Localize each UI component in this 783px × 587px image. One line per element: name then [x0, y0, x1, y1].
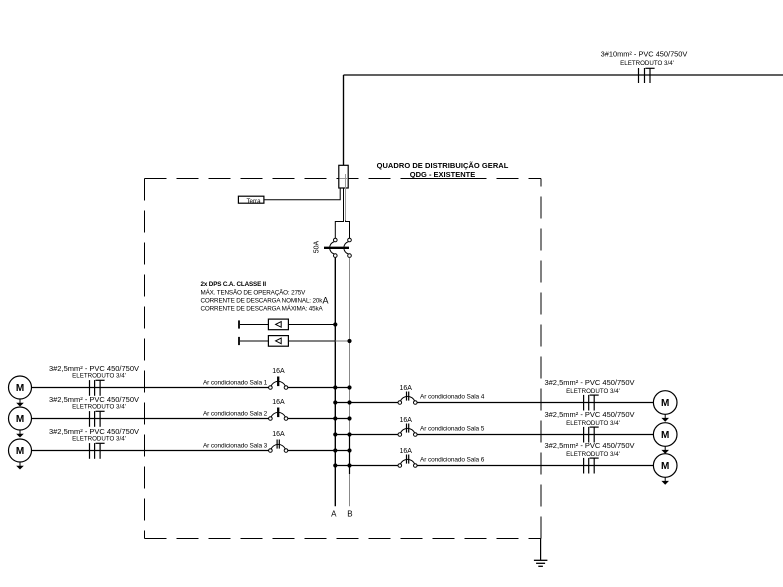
cable marker: 3 conductors branch Sala 5	[584, 427, 599, 443]
label: 3#2,5mm2 - PVC 450/750V (Sala 6)	[544, 441, 634, 450]
svg-text:16A: 16A	[399, 385, 412, 392]
svg-text:M: M	[16, 446, 24, 457]
svg-text:ELETRODUTO 3/4': ELETRODUTO 3/4'	[72, 404, 126, 411]
label: 16A (Sala 1)	[272, 368, 285, 375]
wire: branch Sala 6 breaker to motor	[417, 465, 654, 467]
fuse F1: main incoming fuse block	[339, 165, 348, 188]
svg-text:3#10mm² - PVC 450/750V: 3#10mm² - PVC 450/750V	[601, 50, 688, 59]
label: Ar condicionado Sala 6	[420, 457, 485, 464]
panel enclosure: dashed border QDG	[145, 179, 542, 539]
cable marker: 3 conductors branch Sala 1	[90, 380, 105, 396]
svg-text:3#2,5mm² - PVC 450/750V: 3#2,5mm² - PVC 450/750V	[544, 441, 634, 450]
label: 16A (Sala 2)	[272, 399, 285, 406]
label: DPS specification text block	[201, 281, 329, 312]
wire: branch Sala 2 motor to breaker	[32, 418, 270, 420]
svg-text:ELETRODUTO 3/4': ELETRODUTO 3/4'	[566, 420, 620, 427]
svg-text:16A: 16A	[272, 399, 285, 406]
label: Ar condicionado Sala 5	[420, 426, 485, 433]
label: 16A (Sala 4)	[399, 385, 412, 392]
junction dot: DPS2 to bus B	[347, 339, 351, 343]
svg-text:M: M	[16, 383, 24, 394]
label: 16A (Sala 5)	[399, 417, 412, 424]
svg-text:B: B	[347, 510, 352, 519]
cable marker: 3 conductors branch Sala 2	[90, 411, 105, 427]
label: bus node A	[331, 510, 337, 519]
junction dot: Sala 2 at bus B	[347, 416, 351, 420]
motor M6 (Sala 6)	[653, 454, 677, 485]
label: ELETRODUTO 3/4 (Sala 5)	[566, 420, 620, 427]
label: ELETRODUTO 3/4 (Sala 4)	[566, 388, 620, 395]
label: ELETRODUTO 3/4' (feeder)	[620, 60, 674, 67]
label: bus node B	[347, 510, 352, 519]
terminal block: Terra box	[238, 196, 264, 205]
wire: conductor pair from fuse to breaker	[335, 174, 349, 238]
wire: branch Sala 4 buses to breaker	[335, 402, 398, 404]
svg-text:3#2,5mm² - PVC 450/750V: 3#2,5mm² - PVC 450/750V	[544, 378, 634, 387]
wire: branch Sala 6 buses to breaker	[335, 465, 398, 467]
label: 3#2,5mm2 - PVC 450/750V (Sala 2)	[49, 395, 139, 404]
svg-text:CORRENTE DE DESCARGA MÁXIMA: 4: CORRENTE DE DESCARGA MÁXIMA: 45kA	[201, 303, 324, 312]
circuit breaker 16A Sala 5	[398, 424, 417, 437]
svg-text:MÁX. TENSÃO DE OPERAÇÃO: 275V: MÁX. TENSÃO DE OPERAÇÃO: 275V	[201, 287, 307, 296]
label: ELETRODUTO 3/4 (Sala 1)	[72, 373, 126, 380]
motor M5 (Sala 5)	[653, 423, 677, 454]
label: QDG - EXISTENTE	[410, 170, 475, 179]
svg-text:Terra: Terra	[246, 198, 261, 205]
wire: branch Sala 5 breaker to motor	[417, 434, 654, 436]
svg-text:QUADRO DE DISTRIBUIÇÃO GERAL: QUADRO DE DISTRIBUIÇÃO GERAL	[377, 161, 509, 170]
svg-text:ELETRODUTO 3/4': ELETRODUTO 3/4'	[566, 388, 620, 395]
svg-text:M: M	[661, 461, 669, 472]
svg-text:M: M	[16, 414, 24, 425]
junction dot: Sala 6 at bus B	[347, 463, 351, 467]
label: 3#2,5mm2 - PVC 450/750V (Sala 3)	[49, 427, 139, 436]
label: 3#2,5mm2 - PVC 450/750V (Sala 1)	[49, 364, 139, 373]
wire: ground stem from panel corner	[540, 539, 542, 561]
circuit breaker 16A Sala 6	[398, 455, 417, 468]
label: ELETRODUTO 3/4 (Sala 6)	[566, 451, 620, 458]
label: Ar condicionado Sala 2	[203, 410, 268, 417]
label: 16A (Sala 3)	[272, 431, 285, 438]
svg-text:M: M	[661, 430, 669, 441]
circuit breaker 16A Sala 1	[269, 377, 288, 390]
bus A vertical	[334, 258, 336, 507]
junction dot: Sala 4 at bus B	[347, 400, 351, 404]
label: Ar condicionado Sala 4	[420, 394, 485, 401]
wire: meter tap from fuse	[264, 189, 340, 200]
label: 50A	[314, 240, 321, 253]
motor M3 (Sala 3)	[9, 439, 32, 470]
surge arrester DPS1	[239, 319, 335, 330]
surge arrester DPS2	[239, 336, 350, 347]
junction dot: Sala 1 at bus B	[347, 385, 351, 389]
wire: feeder vertical drop to fuse	[343, 75, 345, 165]
svg-text:3#2,5mm² - PVC 450/750V: 3#2,5mm² - PVC 450/750V	[544, 410, 634, 419]
svg-text:Ar condicionado Sala 6: Ar condicionado Sala 6	[420, 457, 485, 464]
label: 3#2,5mm2 - PVC 450/750V (Sala 5)	[544, 410, 634, 419]
wire: branch Sala 3 breaker to buses	[288, 450, 350, 452]
wire: branch Sala 2 breaker to buses	[288, 418, 350, 420]
svg-text:16A: 16A	[399, 448, 412, 455]
label: 3#2,5mm2 - PVC 450/750V (Sala 4)	[544, 378, 634, 387]
svg-text:A: A	[323, 296, 329, 306]
cable marker: 3 conductors branch Sala 3	[90, 443, 105, 459]
svg-text:2x DPS C.A. CLASSE II: 2x DPS C.A. CLASSE II	[201, 281, 267, 288]
label: ELETRODUTO 3/4 (Sala 3)	[72, 436, 126, 443]
svg-text:A: A	[331, 510, 337, 519]
label: QUADRO DE DISTRIBUICAO GERAL	[377, 161, 509, 170]
svg-text:16A: 16A	[399, 417, 412, 424]
circuit breaker 16A Sala 4	[398, 392, 417, 405]
svg-text:16A: 16A	[272, 431, 285, 438]
cable marker: 3 conductors branch Sala 4	[584, 395, 599, 411]
ground symbol	[534, 560, 548, 566]
svg-text:Ar condicionado Sala 2: Ar condicionado Sala 2	[203, 410, 268, 417]
circuit breaker: main 50A two-pole	[324, 238, 351, 257]
label: ELETRODUTO 3/4 (Sala 2)	[72, 404, 126, 411]
svg-text:ELETRODUTO 3/4': ELETRODUTO 3/4'	[566, 451, 620, 458]
motor M2 (Sala 2)	[9, 407, 32, 438]
svg-text:ELETRODUTO 3/4': ELETRODUTO 3/4'	[72, 373, 126, 380]
circuit breaker 16A Sala 2	[269, 408, 288, 421]
motor M4 (Sala 4)	[653, 391, 677, 422]
svg-text:CORRENTE DE DESCARGA NOMINAL:: CORRENTE DE DESCARGA NOMINAL: 20k	[201, 297, 324, 304]
wire: branch Sala 3 motor to breaker	[32, 450, 270, 452]
svg-text:16A: 16A	[272, 368, 285, 375]
circuit breaker 16A Sala 3	[269, 440, 288, 453]
label: 16A (Sala 6)	[399, 448, 412, 455]
junction dot: DPS1 to bus A	[333, 322, 337, 326]
svg-text:50A: 50A	[314, 240, 321, 253]
wire: branch Sala 4 breaker to motor	[417, 402, 654, 404]
label: 3#10mm2 - PVC 450/750V	[601, 50, 688, 59]
junction dot: Sala 5 at bus B	[347, 432, 351, 436]
cable marker: 3#10mm feeder conductor ticks	[639, 68, 655, 83]
junction dot: Sala 3 at bus A	[333, 448, 337, 452]
svg-text:Ar condicionado Sala 5: Ar condicionado Sala 5	[420, 426, 485, 433]
svg-text:Ar condicionado Sala 3: Ar condicionado Sala 3	[203, 442, 268, 449]
label: Ar condicionado Sala 1	[203, 379, 268, 386]
svg-text:Ar condicionado Sala 4: Ar condicionado Sala 4	[420, 394, 485, 401]
wire: branch Sala 1 motor to breaker	[32, 387, 270, 389]
svg-text:ELETRODUTO 3/4': ELETRODUTO 3/4'	[620, 60, 674, 67]
svg-text:Ar condicionado Sala 1: Ar condicionado Sala 1	[203, 379, 268, 386]
junction dot: Sala 4 at bus A	[333, 400, 337, 404]
svg-text:ELETRODUTO 3/4': ELETRODUTO 3/4'	[72, 436, 126, 443]
junction dot: Sala 6 at bus A	[333, 463, 337, 467]
junction dot: Sala 5 at bus A	[333, 432, 337, 436]
svg-text:M: M	[661, 398, 669, 409]
cable marker: 3 conductors branch Sala 6	[584, 458, 599, 474]
label: Ar condicionado Sala 3	[203, 442, 268, 449]
svg-text:QDG - EXISTENTE: QDG - EXISTENTE	[410, 170, 475, 179]
bus B vertical	[349, 258, 351, 507]
wire: branch Sala 5 buses to breaker	[335, 434, 398, 436]
junction dot: Sala 2 at bus A	[333, 416, 337, 420]
junction dot: Sala 3 at bus B	[347, 448, 351, 452]
wire: branch Sala 1 breaker to buses	[288, 387, 350, 389]
wire: top feeder horizontal	[344, 74, 783, 76]
junction dot: Sala 1 at bus A	[333, 385, 337, 389]
motor M1 (Sala 1)	[9, 376, 32, 407]
